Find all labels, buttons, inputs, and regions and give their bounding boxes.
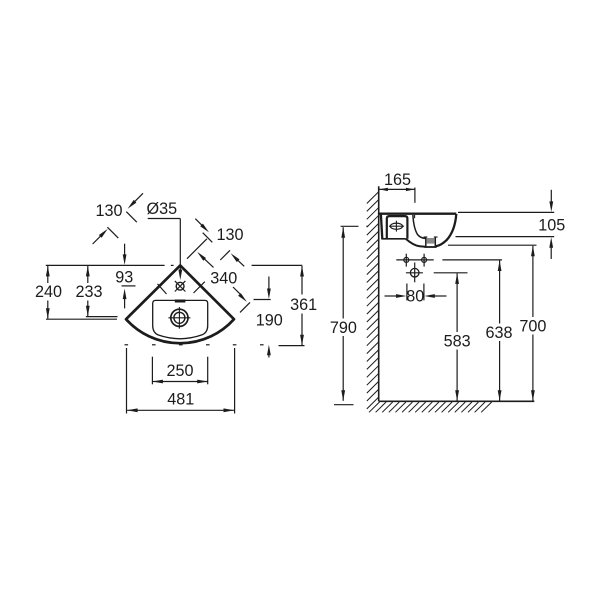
wall hatching [367, 192, 379, 409]
svg-text:130: 130 [95, 202, 122, 220]
bowl inner back curve [413, 215, 426, 239]
svg-text:130: 130 [216, 226, 243, 244]
svg-text:340: 340 [210, 269, 237, 287]
fixing holes line / extension 638 [396, 259, 433, 261]
extension line 240 bottom [46, 318, 117, 320]
dimension 233 [87, 266, 89, 283]
fixing holes [404, 257, 409, 262]
underside of fixing flange [381, 238, 405, 240]
dimension 481 [126, 348, 128, 414]
svg-text:233: 233 [75, 283, 102, 301]
svg-text:250: 250 [166, 362, 193, 380]
apex extension line right [252, 264, 303, 266]
svg-text:190: 190 [256, 312, 283, 330]
tap hole symbol (side view) ellipse with cross [390, 223, 402, 229]
bowl outer right curve [436, 214, 457, 246]
dimension 105 [550, 190, 552, 202]
svg-text:790: 790 [330, 319, 357, 337]
svg-text:80: 80 [406, 288, 424, 306]
svg-text:583: 583 [444, 333, 471, 351]
dimension 361 [301, 266, 303, 295]
back edge against wall [381, 215, 382, 240]
extension line rim level (105 top / 790) [458, 211, 554, 213]
dimension 700 [531, 246, 535, 256]
svg-text:481: 481 [167, 391, 194, 409]
tap hole (top view) circle with X [176, 282, 184, 290]
extension line 700 top [448, 244, 537, 246]
svg-text:240: 240 [35, 283, 62, 301]
extension line at drain level (233) [86, 316, 118, 318]
basin inner bowl outline [153, 300, 208, 338]
svg-text:Ø35: Ø35 [146, 200, 177, 218]
svg-text:93: 93 [115, 269, 133, 287]
tap chamber outline [387, 216, 408, 239]
dimension 583 [455, 273, 459, 284]
dimension 190 [254, 299, 271, 301]
svg-text:638: 638 [485, 324, 512, 342]
wall line [378, 186, 380, 401]
dimension 240 [47, 266, 49, 283]
extension line bottom right (361) [279, 345, 305, 347]
bowl underside left of drain [406, 239, 426, 247]
extension line 105 bottom [456, 236, 555, 238]
drain hole crosshair / extension 583 [406, 272, 423, 274]
floor hatching [369, 402, 492, 412]
drain outlet [427, 238, 435, 244]
corner washbasin top view: apex extension line left [46, 264, 165, 266]
drain (top view) concentric circles with crosshair [171, 309, 188, 326]
svg-text:361: 361 [290, 296, 317, 314]
svg-text:105: 105 [538, 216, 565, 234]
extension line top of 790 [341, 225, 359, 227]
dimension 790 [341, 227, 345, 238]
svg-text:700: 700 [519, 318, 546, 336]
floor line [379, 400, 535, 402]
basin outer outline (corner shape) [126, 265, 234, 343]
washbasin side profile: rim [379, 213, 456, 215]
extension line tap hole level (93) [122, 285, 136, 287]
dimension 340 along right edge [187, 239, 207, 259]
dimension 250 [151, 357, 153, 385]
dimension 93 [124, 244, 126, 258]
dimension 638 [498, 261, 502, 272]
extension line 165 right [414, 188, 416, 203]
overflow slot mark [175, 300, 186, 303]
svg-text:165: 165 [384, 171, 411, 189]
dashed line at basin front tangent [125, 344, 129, 346]
dimension 80 [406, 284, 408, 301]
extension tick at tap hole on rim [414, 215, 416, 218]
floor tick for 790 [334, 404, 354, 406]
